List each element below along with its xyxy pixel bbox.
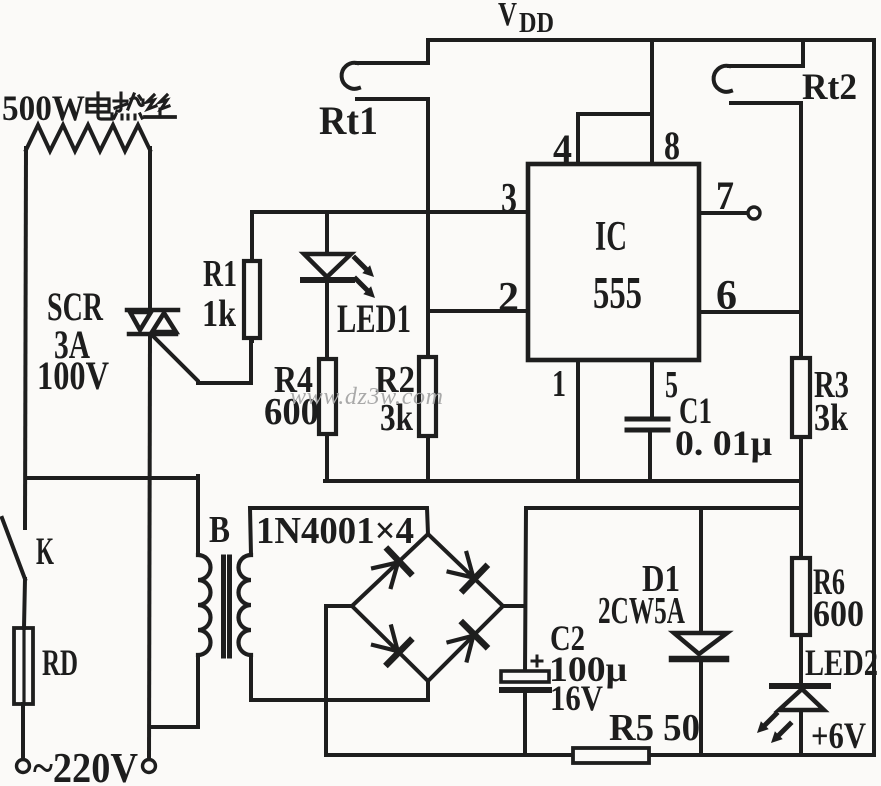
switch K blade — [2, 518, 25, 579]
heater zigzag element — [26, 125, 150, 151]
svg-text:7: 7 — [716, 173, 734, 218]
label C1 0.01u — [675, 391, 772, 463]
label ~220V — [33, 746, 138, 786]
capacitor C1 — [627, 417, 668, 422]
pin 7 wire — [699, 211, 748, 215]
svg-text:16V: 16V — [550, 678, 603, 718]
label R6 600 — [813, 562, 864, 635]
switch K label — [36, 530, 54, 573]
label R5 50 — [609, 707, 700, 749]
wire bridge right vertex to C2 node — [503, 604, 525, 608]
svg-text:R1: R1 — [203, 253, 237, 295]
LED LED2 — [772, 683, 828, 689]
LED2 arrows — [757, 714, 790, 743]
pin 6 wire — [699, 310, 801, 314]
bridge diode bottom-left — [373, 627, 410, 664]
label LED1 — [337, 296, 411, 341]
label D1 2CW5A — [598, 558, 685, 632]
pin 1 label — [552, 363, 566, 405]
watermark — [290, 384, 443, 410]
svg-text:100V: 100V — [37, 353, 109, 398]
svg-text:8: 8 — [664, 123, 680, 168]
wire node 220V line2 horizontal — [26, 476, 198, 480]
svg-text:6: 6 — [716, 273, 737, 319]
transformer secondary winding — [239, 555, 252, 655]
heater label 500W电热丝 — [2, 88, 85, 128]
svg-text:600: 600 — [813, 594, 864, 635]
LED1 arrows — [355, 258, 375, 298]
svg-text:R5 50: R5 50 — [609, 707, 700, 749]
pin 7 terminal circle — [748, 207, 760, 219]
svg-text:1k: 1k — [202, 293, 237, 335]
gate wire diagonal to R1 — [154, 337, 251, 383]
label 1N4001x4 — [256, 510, 414, 552]
pin 7 label — [716, 173, 734, 218]
svg-text:~220V: ~220V — [33, 746, 138, 786]
transformer primary winding — [198, 555, 211, 655]
pin 2 label — [498, 275, 519, 321]
right edge wire — [872, 40, 876, 755]
terminal circle right — [143, 760, 156, 773]
label VDD — [498, 0, 554, 39]
svg-text:2CW5A: 2CW5A — [598, 590, 685, 632]
pin 8 wire — [650, 40, 654, 164]
label C2 100u 16V — [549, 618, 627, 718]
wire triac bottom vertical — [149, 334, 150, 758]
fuse RD label — [42, 643, 78, 684]
transformer primary lead bottom — [151, 655, 198, 727]
svg-text:V: V — [498, 0, 517, 33]
resistor R6 — [792, 558, 810, 635]
svg-text:3: 3 — [501, 176, 517, 222]
svg-text:1: 1 — [552, 363, 566, 405]
ground rail bottom — [326, 753, 874, 757]
svg-text:3k: 3k — [814, 397, 849, 439]
svg-text:B: B — [209, 509, 230, 551]
svg-text:1N4001×4: 1N4001×4 — [256, 510, 414, 552]
capacitor C2 plus sign — [532, 656, 542, 666]
pin 5 label — [665, 364, 678, 406]
svg-text:DD: DD — [519, 7, 554, 39]
label Rt2 — [802, 67, 857, 108]
svg-text:Rt1: Rt1 — [319, 98, 378, 143]
bridge diode bottom-right — [449, 623, 486, 660]
svg-text:2: 2 — [498, 275, 519, 321]
label +6V — [811, 716, 866, 757]
resistor R4 — [319, 359, 336, 434]
zener diode D1 — [674, 633, 727, 654]
resistor R1 — [250, 212, 254, 341]
wire fuse to terminal — [21, 704, 25, 759]
svg-text:5: 5 — [665, 364, 678, 406]
terminal circle left — [17, 760, 30, 773]
pin 1 wire — [576, 360, 580, 481]
transformer secondary lead bottom — [251, 655, 428, 700]
bridge diamond wires — [352, 534, 503, 681]
fuse RD — [14, 628, 33, 704]
capacitor C2 — [501, 671, 549, 682]
transformer primary lead top — [196, 476, 200, 555]
pin 3 label — [501, 176, 517, 222]
label IC 555 — [593, 214, 642, 318]
svg-text:RD: RD — [42, 643, 78, 684]
svg-text:+6V: +6V — [811, 716, 866, 757]
svg-text:IC: IC — [595, 214, 627, 260]
triac SCR — [127, 310, 178, 334]
svg-text:500W: 500W — [2, 88, 85, 128]
bridge diode top-left — [373, 550, 410, 587]
wire switch to fuse — [24, 579, 25, 628]
op IC 555 box — [528, 164, 699, 360]
rail top of power section — [526, 506, 801, 510]
resistor R3 — [792, 358, 810, 437]
svg-text:555: 555 — [593, 267, 642, 318]
wire C2 branch — [525, 508, 526, 755]
label Rt1 — [319, 98, 378, 143]
thermistor Rt1 — [357, 40, 428, 357]
svg-text:LED2: LED2 — [805, 643, 878, 684]
resistor R2 — [419, 357, 436, 436]
bridge diode top-right — [449, 553, 486, 590]
pin 2 wire — [428, 309, 528, 313]
pin 4 wire — [578, 114, 652, 164]
ground rail of 555 section — [325, 479, 801, 483]
pin 5 wire — [650, 360, 652, 419]
svg-text:4: 4 — [553, 126, 572, 171]
pin 6 label — [716, 273, 737, 319]
transformer secondary lead top — [250, 508, 428, 555]
hanzi 电 — [87, 93, 112, 119]
svg-text:Rt2: Rt2 — [802, 67, 857, 108]
pin 8 label — [664, 123, 680, 168]
svg-text:K: K — [36, 530, 54, 573]
hanzi 丝 — [145, 95, 175, 117]
VDD rail — [428, 38, 874, 42]
wire heater left vertical — [25, 148, 26, 528]
label R2 3k — [375, 359, 415, 439]
SCR labels — [37, 284, 109, 398]
wire bridge left vertex to ground rail — [326, 606, 352, 755]
label R3 3k — [814, 364, 849, 439]
svg-text:LED1: LED1 — [337, 296, 411, 341]
thermistor Rt2 — [729, 40, 803, 358]
pin 3 wire — [252, 210, 528, 214]
svg-text:0. 01μ: 0. 01μ — [675, 423, 772, 463]
label LED2 — [805, 643, 878, 684]
hanzi 热 — [114, 93, 143, 119]
LED LED1 — [325, 212, 329, 254]
pin 4 label — [553, 126, 572, 171]
transformer core — [221, 557, 226, 656]
transformer B label — [209, 509, 230, 551]
resistor R5 inline — [573, 748, 649, 763]
wire heater right vertical to triac — [148, 148, 152, 310]
label R1 1k — [202, 253, 237, 335]
zener D1 branch wire — [699, 508, 703, 755]
label R4 600 — [264, 359, 319, 433]
svg-text:www.dz3w.com: www.dz3w.com — [290, 384, 443, 410]
